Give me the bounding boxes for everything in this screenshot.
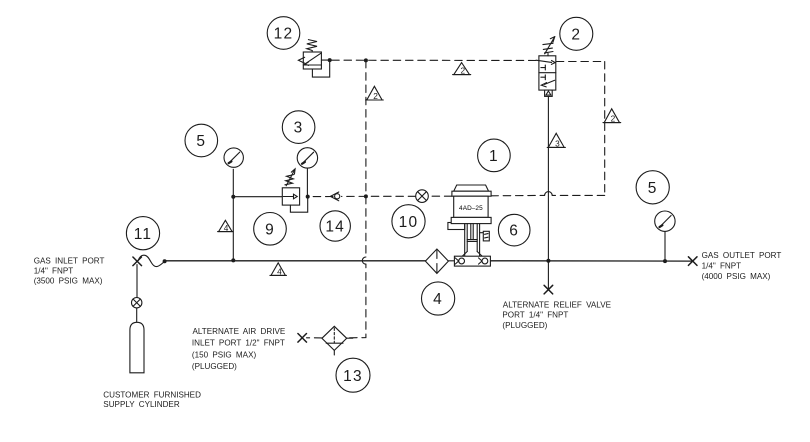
svg-text:1: 1 [489,148,499,165]
pump: cap band [452,191,491,196]
pump: flange [451,217,491,223]
wire: vertical branch to gauge 5 left [232,169,234,260]
valve: crossed-circle on supply cylinder line [132,298,142,308]
flag triangle 2 on vertical pilot line [366,86,384,100]
balloon 14 [320,211,350,241]
balloon 2 [560,17,593,50]
balloon 1 [478,139,511,172]
svg-text:4: 4 [277,266,282,276]
port X: alternate relief valve port [544,285,553,294]
flag triangle 2 on right drop line [603,109,621,123]
svg-text:12: 12 [274,26,294,43]
svg-text:(PLUGGED): (PLUGGED) [192,362,237,371]
valve 10: crossed-circle shutoff on air line [416,190,429,203]
regulator 9 relief loop [290,197,307,213]
svg-text:1/4" FNPT: 1/4" FNPT [702,262,742,271]
balloon 4 [422,282,455,315]
junction dot: relief riser on main line [546,259,550,263]
wire: dashed segment filter 13 to air drive port [307,337,322,339]
junction dot: relief valve 12 outlet [328,58,332,62]
svg-text:GAS OUTLET PORT: GAS OUTLET PORT [702,251,782,260]
balloon 10 [392,205,425,238]
wire: dashed air line right segment with hop over relief line [552,194,605,196]
valve 2 spring adjustment arrow [543,37,555,56]
wire: main gas line filter to pump [448,260,454,262]
svg-text:ALTERNATE RELIEF VALVE: ALTERNATE RELIEF VALVE [503,301,612,310]
flag triangle 3 [547,133,565,147]
svg-text:(150 PSIG MAX): (150 PSIG MAX) [192,351,257,360]
wire: dashed segment check valve 14 to regulator outlet [308,196,333,198]
balloon 11 [126,217,159,250]
wire: branch to regulator inlet [233,196,282,198]
balloon 3 [282,111,315,144]
svg-text:5: 5 [648,180,658,197]
pump: body [454,196,488,217]
wire: inlet cylinder riser upper [136,265,138,298]
svg-text:4AD–25: 4AD–25 [459,205,483,212]
wire: dashed pilot line from relief valve 12 to valve 2 [332,59,539,61]
junction dot: regulator branch [231,195,235,199]
svg-text:2: 2 [611,114,616,124]
wire: dashed vertical pilot branch upper [365,60,367,196]
svg-text:2: 2 [460,66,465,76]
svg-text:9: 9 [265,221,275,238]
pump 1: gas booster 4AD-25 cap [454,185,489,191]
wire: flexible hose at gas inlet [138,255,165,266]
regulator 9 spring adjustment arrow [285,169,295,186]
svg-text:3: 3 [555,138,560,148]
balloon 9 [254,213,287,246]
junction dot: regulator outlet [306,195,310,199]
gauge 3 [297,148,317,168]
pump: left step bracket [448,223,465,230]
pump: muffler [480,231,490,241]
svg-text:(PLUGGED): (PLUGGED) [502,321,547,330]
junction dot: pilot tee top [364,58,368,62]
valve 2 vent box with triangle [545,90,553,96]
wire: inlet cylinder riser lower [136,308,138,322]
wire: hop over main line [362,257,366,264]
svg-text:5: 5 [196,133,206,150]
wire: vertical line valve 2 to relief port [547,96,549,290]
wire: dashed air line pump to shutoff 10 [428,195,452,197]
svg-text:14: 14 [325,219,345,236]
flag triangle 4 on main line [270,263,287,276]
svg-text:11: 11 [134,226,153,243]
wire: gauge 3 stem [306,168,308,196]
svg-text:1/4" FNPT: 1/4" FNPT [34,266,74,275]
wire: dashed line valve 2 outlet right [556,61,604,63]
junction dot: gauge branch on main line [231,258,235,262]
svg-text:SUPPLY CYLINDER: SUPPLY CYLINDER [103,400,180,409]
wire: gauge 5 right stem [664,232,666,261]
wire: dashed vertical branch lower upper part [365,196,367,257]
wire: main gas line inlet to filter [166,260,425,262]
pump: air barrel walls [465,224,480,257]
svg-text:(3500 PSIG MAX): (3500 PSIG MAX) [34,277,103,286]
svg-text:(4000 PSIG MAX): (4000 PSIG MAX) [702,272,771,281]
svg-text:6: 6 [509,223,519,240]
svg-text:13: 13 [343,368,363,385]
balloon 13 [336,358,370,392]
valve 2 body (cycling spool valve) [536,56,556,90]
flag triangle 2 left of valve 2 [453,63,471,75]
flag triangle 4 on gauge branch [218,220,234,231]
gauge 5 right [655,211,675,231]
gauge 5 left [224,148,243,167]
junction dot: outlet gauge on main line [663,259,667,263]
wire: dashed air line shutoff 10 to check valve 14 [342,195,416,197]
balloon 5 left [185,124,218,157]
balloon 5 right [636,171,669,204]
wire: dashed vertical to air drive corner [347,264,366,338]
filter 13: diamond on air drive line with drain [322,326,353,355]
relief valve 12 spring [307,40,317,52]
balloon 12 [267,17,300,50]
svg-text:PORT 1/4" FNPT: PORT 1/4" FNPT [502,311,568,320]
junction dot: pilot cross junction [364,194,368,198]
wire: main gas line pump to outlet port [491,260,693,262]
pump: piston rod and cap [467,224,477,242]
svg-text:4: 4 [433,291,443,308]
svg-text:ALTERNATE AIR DRIVE: ALTERNATE AIR DRIVE [193,327,286,336]
pump 6: check valve manifold [454,256,490,266]
svg-text:2: 2 [571,26,581,43]
balloon 6 [498,214,530,246]
supply cylinder [130,322,144,373]
svg-text:CUSTOMER FURNISHED: CUSTOMER FURNISHED [103,391,201,400]
wire: dashed line right vertical drop [604,62,606,196]
svg-text:10: 10 [399,214,419,231]
port X: gas inlet [133,257,142,266]
pump: foot flare [462,252,482,257]
filter 4: diamond on gas line [425,249,448,273]
svg-text:3: 3 [294,120,304,137]
svg-text:4: 4 [224,223,229,233]
svg-text:2: 2 [373,91,378,101]
port X: alternate air drive inlet port [298,334,307,343]
relief valve 12 outlet and loop [312,60,329,77]
port X: gas outlet [688,257,697,266]
regulator 9 body [282,188,299,205]
svg-text:GAS INLET PORT: GAS INLET PORT [34,257,105,266]
svg-text:INLET PORT 1/2" FNPT: INLET PORT 1/2" FNPT [192,339,285,348]
junction dot: hose to main line [163,259,167,263]
relief valve 12 body [298,52,321,69]
check valve 14 [330,192,339,201]
